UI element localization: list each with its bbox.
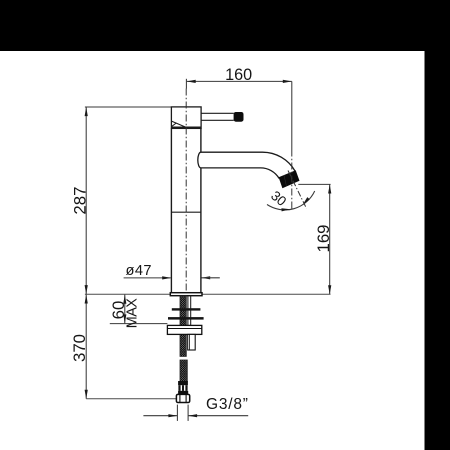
dimension 160 right arrow [283, 80, 292, 83]
dimension 169 bottom arrow [328, 285, 331, 294]
dimension G3/8 right arrow [188, 414, 197, 417]
dimension dia47 right arrow [201, 276, 210, 279]
countertop line right [202, 293, 330, 295]
dimension 370 bottom arrow [85, 390, 88, 399]
dimension 160 left arrow [187, 80, 196, 83]
mounting nut bevel line [167, 328, 201, 330]
black scan band right [425, 0, 450, 450]
leader nut top [110, 323, 168, 325]
nipple highlight line [189, 334, 191, 350]
black scan band top [0, 0, 450, 51]
dimension dia47 leader [124, 277, 171, 279]
faucet cap bottom thick edge [171, 126, 201, 128]
extension line cap top [85, 106, 171, 108]
angle 30 arc [267, 191, 315, 210]
leader hose end [86, 398, 176, 400]
mounting nut [167, 325, 201, 334]
angle 30 arrow A [281, 208, 290, 212]
countertop line left [85, 293, 170, 295]
aerator block [279, 170, 300, 188]
braided hose [180, 360, 187, 381]
hose end nut [176, 394, 189, 402]
faucet cap lever diagonal [172, 121, 187, 127]
svg-text:370: 370 [70, 334, 89, 362]
body left edge [170, 128, 172, 292]
dimension 169 line [329, 184, 331, 294]
centerline faucet axis [185, 89, 187, 296]
svg-text:G3/8”: G3/8” [206, 396, 249, 413]
hose band 2 [178, 391, 188, 395]
extension line spout tip [291, 81, 293, 149]
dimension G3/8 ext line right [187, 405, 189, 421]
dimension 287 line [85, 107, 87, 294]
threaded shank [180, 296, 186, 357]
lever arm bottom line [201, 119, 234, 121]
angle 30 arrow B [303, 197, 310, 205]
dimension 287 top arrow [85, 107, 88, 116]
dimension 160 tick at centerline [185, 79, 187, 89]
centerline outlet vertical [291, 150, 293, 211]
nipple [188, 334, 196, 350]
svg-text:287: 287 [71, 187, 90, 215]
dimension G3/8 line left [143, 415, 177, 417]
base flange [170, 293, 202, 296]
dimension G3/8 left arrow [168, 414, 177, 417]
dimension G3/8 line right [188, 415, 248, 417]
pull rod right line [190, 296, 192, 326]
centerline outlet tilted 30deg [288, 171, 307, 209]
body joint line [171, 211, 201, 213]
dimension G3/8 ext line left [176, 405, 178, 421]
leader spout outlet [298, 183, 330, 185]
body right edge upper [200, 128, 202, 152]
dimension 169 top arrow [328, 185, 331, 194]
hose ferrule highlights [181, 385, 184, 391]
dimension 370 line [85, 294, 87, 398]
dimension 60MAX top arrow [123, 295, 126, 304]
spout outline [198, 152, 295, 178]
svg-text:MAX: MAX [125, 298, 141, 328]
svg-text:169: 169 [314, 225, 333, 253]
hose ferrule [178, 385, 187, 391]
dimension 60MAX line [124, 295, 126, 324]
faucet cap notch line [172, 123, 177, 126]
dimension 287 bottom arrow [85, 285, 88, 294]
faucet cap [171, 107, 201, 128]
body right edge lower [200, 168, 202, 293]
hose end nut flats [180, 394, 186, 402]
dimension dia47 right tail [201, 277, 220, 279]
hose crimp band [178, 381, 188, 385]
aerator knurl lines [284, 170, 293, 185]
dimension 60MAX bottom arrow [123, 314, 126, 323]
dimension 370 top arrow [85, 295, 88, 304]
dimension dia47 left arrow [162, 276, 171, 279]
svg-text:ø47: ø47 [126, 263, 152, 279]
dimension 160 line [187, 80, 292, 82]
pull rod left line [187, 296, 189, 326]
washer 1 [172, 308, 201, 310]
svg-text:160: 160 [225, 66, 252, 84]
lever arm top line [201, 112, 234, 114]
lever knob [234, 112, 244, 122]
washer 2 [168, 317, 204, 320]
